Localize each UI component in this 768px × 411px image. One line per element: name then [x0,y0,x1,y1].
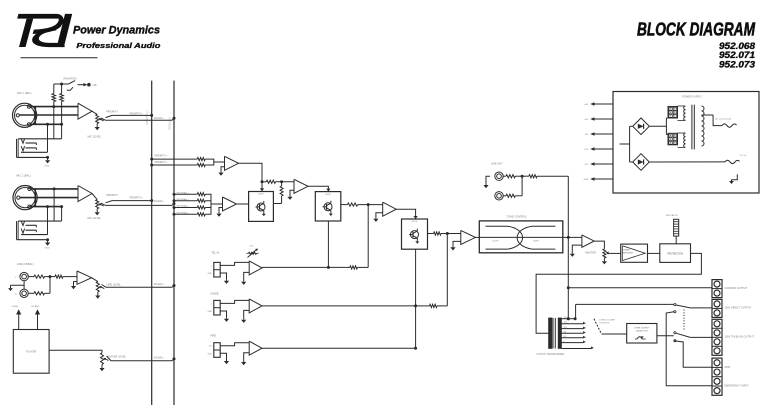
wire secondary out [702,115,723,126]
svg-text:100V: 100V [564,317,569,319]
label PHANTOM [64,76,77,80]
svg-text:INDICATOR: INDICATOR [666,214,678,217]
wire amp to protection [648,252,660,254]
resistor R15 signal tap4 [173,204,212,216]
svg-text:GND: GND [207,353,212,355]
label terminal EMERGENCY [725,385,750,388]
potentiometer VR4 PLAYER LEVEL [101,353,109,365]
connector CN1 primary select [668,107,678,119]
svg-text:MUTE: MUTE [325,194,331,196]
ground CHIME op-amp [241,310,249,323]
ground CHIME connector [220,311,229,322]
svg-text:PRIORITY+: PRIORITY+ [130,196,143,199]
antenna ANT2 BT [32,305,41,329]
svg-text:SELECTOR: SELECTOR [636,330,648,332]
svg-text:MUTE: MUTE [412,221,418,223]
switch S5 output select [674,332,712,342]
ground U6 [287,190,294,200]
svg-text:SIGNAL+: SIGNAL+ [154,357,165,360]
label FIRE [210,334,216,338]
block PROTECTION [660,244,691,263]
svg-text:LINE OUT: LINE OUT [491,162,503,166]
svg-text:Professional Audio: Professional Audio [76,43,161,50]
terminal strip group1 [712,280,722,298]
mute block Q1 (VCA mute 1) [249,192,274,222]
wire Q2 mute control (TEL) [327,221,330,269]
svg-text:TEL IN: TEL IN [211,251,219,255]
ground RCA shield [8,281,24,291]
wire to priority summing amp [214,161,225,163]
wire S5 throw2 [674,341,712,368]
svg-text:MUTE: MUTE [258,194,264,196]
ground VR4 [99,365,104,372]
svg-text:PRIORITY: PRIORITY [106,110,119,114]
terminal strip group3 [712,319,722,355]
wire line out join [521,176,523,196]
wire direct riser [568,287,712,289]
wire J3 pin2 to preamp [20,197,78,199]
op-amp CHIME amp [249,299,262,313]
label terminal COMMON [725,287,748,290]
resistor R24 line out feed [522,175,568,178]
terminal strip group2 [712,299,722,317]
svg-text:ZONE OUTPUT: ZONE OUTPUT [634,327,650,329]
op-amp U4 priority summing [225,156,239,170]
op-amp U8 program amp [461,230,476,244]
switch S1 phantom [67,81,75,91]
svg-text:PRIORITY+: PRIORITY+ [155,154,168,157]
svg-text:Power Dynamics: Power Dynamics [73,25,160,37]
wire CHIME to U8 node [446,234,448,306]
op-amp U2 mic preamp 2 [78,186,92,202]
connector jack J2 (mic1 TRS) [17,139,62,158]
svg-text:COMMON OUTPUT: COMMON OUTPUT [725,287,748,290]
wire protection to output [536,253,701,333]
label MIC LEVEL 2 [88,216,102,220]
svg-text:CHIME: CHIME [210,291,219,295]
svg-text:POWER: POWER [622,250,630,252]
svg-text:PROTECTION: PROTECTION [667,252,683,255]
wire ch1 to priority bus [112,112,153,117]
wire J3 pin link [34,189,36,207]
svg-text:LED: LED [250,245,254,247]
switch S2 channel1 routing [106,115,113,117]
mute block Q2 (VCA mute 2) [315,192,341,221]
label MASTER [585,251,596,255]
ground VR5 [602,258,607,264]
wire TEL IN input [220,262,249,265]
ground U8 [450,241,460,250]
title block [637,18,755,69]
ground U5 [216,208,222,217]
op-amp U5 signal summing [223,197,237,211]
op-amp U6 mix amp [294,179,308,193]
wire CHIME input [220,300,249,303]
wire U8 to tone control [475,236,479,238]
block PLAYER (MP3/BT module) [13,330,49,374]
wire indicator [675,236,677,244]
ground FIRE connector [220,353,229,364]
label LINE input [17,262,34,266]
ground jack1 [45,157,51,167]
wire line sum node [49,277,51,294]
svg-text:SIGNAL+: SIGNAL+ [176,211,190,214]
op-amp U3 line amp [77,271,92,284]
block POWER SUPPLY [613,92,759,194]
antenna ANT1 WLAN [12,305,21,329]
fuse F2 DC [725,154,747,163]
ground U9 [570,245,582,257]
svg-text:PRIORITY+: PRIORITY+ [155,161,168,164]
svg-text:GND: GND [45,165,50,167]
resistor R21 CHIME [416,304,448,307]
label ZONE VOLUME CONTROL [599,320,615,325]
wire player to signal bus [107,356,176,361]
resistor R6 line R [28,292,50,295]
ground U7 [373,213,382,222]
svg-text:100Hz: 100Hz [492,241,498,243]
wire 100V feed [576,304,674,318]
svg-text:OUTPUT TRANSFORMER: OUTPUT TRANSFORMER [537,353,565,356]
wire J1 pin3 [31,123,64,126]
svg-text:GND: GND [207,311,212,313]
svg-text:BT ANT: BT ANT [32,305,40,308]
svg-text:SIGNAL (+): SIGNAL (+) [169,117,172,130]
resistor R1 phantom [52,84,56,139]
label MIC 1 input [17,91,31,95]
label TEL IN [211,251,219,255]
transformer taps [562,317,586,343]
block POWER AMPLIFIER [621,244,648,262]
wire TEL to U7 node [367,205,369,268]
connector CN2 primary select [668,133,678,145]
svg-text:ZONE VOLUME: ZONE VOLUME [599,320,615,322]
connector RCA J6 R [15,289,28,297]
label MIC 2 input [16,173,30,177]
resistor R19 Q3 out [428,232,461,235]
trimmer TEL IN level [247,245,259,257]
label PRIORITY switch 2 [106,193,119,197]
resistor R5 line L [28,275,51,278]
wire J1 pin2 to preamp [19,114,78,116]
svg-text:SIGNAL+: SIGNAL+ [176,191,190,194]
svg-text:PLAYER LEVEL: PLAYER LEVEL [107,354,126,358]
op-amp TEL IN amp [249,261,262,275]
resistor R20 TEL [346,266,368,269]
tap bottom [562,346,594,349]
wire jack1 sleeve riser [47,124,49,152]
resistor R10 priority tap1 [150,158,214,163]
power supply outputs [583,102,613,181]
logo Power Dynamics [17,14,161,58]
svg-text:-15V: -15V [584,134,589,136]
ground VR2 [95,209,100,216]
wire J3 pin3 [31,205,63,208]
wire line to signal bus [102,283,176,287]
svg-text:GND: GND [584,179,589,181]
label CHIME [210,291,219,295]
svg-text:LINE (UNBAL): LINE (UNBAL) [17,262,34,266]
switch S3 channel2 routing [106,201,113,203]
svg-text:-24V: -24V [584,164,589,166]
svg-text:MASTER: MASTER [585,251,596,255]
resistor R12 signal tap1 [173,191,212,204]
resistor R13 signal tap2 [173,198,212,204]
svg-text:FIRE: FIRE [210,334,216,338]
selector SW3 voltage wiper [594,319,627,334]
wire FIRE input [220,343,249,346]
svg-text:WLAN: WLAN [12,305,19,308]
resistor R14 signal tap3 [173,204,212,209]
transformer T2 primary winding B [678,133,686,147]
wire S4 throw2 [666,312,712,386]
ground PSU [729,174,737,184]
op-amp U9 master amp [563,235,594,247]
block ZONE OUTPUT SELECTOR [627,324,657,344]
svg-text:PLAYER: PLAYER [26,350,36,354]
wire TEL bus [262,266,346,268]
wire U4 out to Q1 control [239,163,265,191]
transformer T2 core [692,105,694,150]
resistor R11 priority tap2 [150,162,214,167]
wire rectifier common [620,126,633,162]
svg-text:EMERGENCY INPUT: EMERGENCY INPUT [725,385,750,388]
svg-text:AMPLIFIER: AMPLIFIER [622,251,633,254]
indicator LED bargraph [666,214,679,236]
svg-text:+24V: +24V [583,149,589,151]
potentiometer VR1 MIC LEVEL [92,111,104,123]
ground jack2 [45,238,51,250]
label priority taps [155,154,168,163]
ground VR3 [95,292,100,299]
svg-text:100V,70V,8Ω,4Ω OUTPUT: 100V,70V,8Ω,4Ω OUTPUT [725,336,755,339]
resistor R2 phantom [60,83,64,139]
svg-text:GND: GND [45,248,50,250]
terminal strip group4 [712,358,722,395]
connector TEL IN terminal [207,262,220,277]
connector CHIME terminal [207,300,220,315]
svg-text:MOH: MOH [725,366,731,369]
ground U3 [71,282,77,290]
wire FIRE bus [262,347,416,349]
transformer T2 secondary [702,106,705,146]
wire zone out [657,335,674,337]
rectifier BR1 [633,118,650,135]
svg-text:POWER SUPPLY: POWER SUPPLY [682,95,702,98]
ground FIRE op-amp [241,353,249,366]
gang link S4-S5 [683,310,685,331]
svg-text:MIC LEVEL: MIC LEVEL [88,216,102,220]
wire J1 pin1 to preamp [31,106,79,108]
potentiometer VR5 MASTER [594,241,606,258]
svg-text:TONE CONTROL: TONE CONTROL [506,215,527,219]
wire BR2 out [649,161,725,163]
resistor R23 line out R [503,194,522,197]
wire to signal summing amp [211,203,223,205]
resistor R17 Q1 out [273,182,283,204]
connector RCA J7 line out L [495,172,503,180]
svg-text:+48V: +48V [583,104,589,106]
transformer T1 output transformer [549,318,562,349]
ground line out [483,176,490,188]
resistor R18 Q2 out [341,203,383,206]
label terminal MOH [725,366,731,369]
switch S4 output select [674,304,712,313]
label terminal outputs [725,336,755,339]
wire ch1 to signal bus [101,117,176,120]
node +48 phantom supply [78,83,97,87]
label terminal DIRECT [725,307,752,310]
svg-text:PRIORITY: PRIORITY [106,193,119,197]
svg-text:SIGNAL+: SIGNAL+ [154,200,165,203]
priority bus (vertical net PRIORITY) [146,81,152,405]
svg-text:AC outlet (fused): AC outlet (fused) [715,118,731,121]
svg-text:PRIORITY (-): PRIORITY (-) [146,110,149,125]
fuse F1 mains [715,118,736,128]
potentiometer VR3 LINE LEVEL [92,278,105,292]
rectifier BR2 [633,154,650,171]
ground TEL IN op-amp [241,272,249,285]
wire player out [49,350,102,353]
svg-text:DC out: DC out [740,154,747,157]
ground U4 [218,167,224,176]
ground TEL IN connector [220,273,229,284]
op-amp U7 mix amp 2 [383,202,397,216]
wire ch2 to priority bus [112,196,153,202]
potentiometer VR2 MIC LEVEL [92,194,104,209]
resistor R16 priority feed [262,180,294,183]
resistor R7 line mix [50,275,77,278]
wire line out riser [567,176,570,320]
resistor R22 line out L [503,175,524,178]
label PRIORITY switch 1 [106,110,119,114]
svg-text:SIGNAL+: SIGNAL+ [176,198,190,201]
wire U7 out to Q3 [396,209,418,219]
connector XLR J1 [13,103,37,127]
wiper VR5 [606,252,621,255]
svg-text:10kHz: 10kHz [533,241,539,243]
svg-text:SIGNAL+: SIGNAL+ [154,283,165,286]
label LINE LEVEL [106,282,121,286]
mute block Q3 (VCA mute 3) [402,219,428,249]
signal bus (vertical net SIGNAL) [169,81,174,405]
label LINE OUT [491,162,503,166]
wire ch2 to signal bus [101,200,176,205]
wire U6 out to Q2 [308,186,331,191]
connector RCA J5 L [15,272,28,280]
ground VR1 [95,124,100,131]
wire Q3 mute control (CHIME/FIRE) [414,249,417,350]
svg-text:PHANTOM: PHANTOM [64,76,77,80]
connector RCA J8 line out R [495,192,503,200]
svg-text:100V DIRECT OUTPUT: 100V DIRECT OUTPUT [725,307,752,310]
svg-text:SIGNAL+: SIGNAL+ [154,117,165,120]
label MIC LEVEL 1 [88,134,102,138]
wire CHIME bus [262,305,416,307]
svg-text:952.073: 952.073 [719,60,755,70]
label TONE CONTROL [506,215,527,219]
svg-text:MIC 1 (BAL): MIC 1 (BAL) [17,91,31,95]
svg-text:MIC LEVEL: MIC LEVEL [88,134,102,138]
op-amp U1 mic preamp 1 [78,103,92,119]
svg-text:GND: GND [207,273,212,275]
svg-text:BLOCK DIAGRAM: BLOCK DIAGRAM [637,18,755,39]
wire jack2 risers [48,189,62,235]
svg-text:NO: NO [209,346,212,348]
svg-text:MIC 2 (BAL): MIC 2 (BAL) [16,173,30,177]
svg-text:+48: +48 [92,83,97,87]
wire U5 out to Q1 input [237,203,249,205]
wire J3 pin1 to preamp [31,187,78,190]
svg-text:PRIORITY+: PRIORITY+ [130,112,143,115]
svg-text:SIGNAL+: SIGNAL+ [176,205,190,208]
connector FIRE terminal [207,343,220,358]
wire BR1 out [649,118,668,135]
svg-text:+15V: +15V [583,119,589,121]
connector XLR J3 [13,186,37,210]
transformer T2 primary winding A [678,106,686,120]
svg-text:LINE LEVEL: LINE LEVEL [106,282,121,286]
wire J1 pin link [34,107,36,125]
phantom rail wire [54,83,69,85]
connector jack J4 (mic2 TRS) [17,221,62,240]
svg-text:CONTROL: CONTROL [599,323,610,325]
op-amp FIRE amp [249,341,262,355]
label OUTPUT TRANSFORMER [537,353,565,356]
wire jack1 sleeve drop [46,156,49,159]
label PLAYER LEVEL [107,354,126,358]
block TONE CONTROL [479,221,563,253]
